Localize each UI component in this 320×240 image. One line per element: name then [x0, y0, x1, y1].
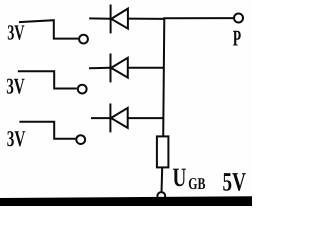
wire input 2 (L-shape from 3V source to switch): [18, 71, 77, 88]
terminal at supply rail: [157, 192, 165, 200]
svg-text:3V: 3V: [7, 21, 25, 45]
wire D3 cathode lead: [91, 117, 110, 119]
svg-text:P: P: [233, 26, 242, 51]
switch terminal (input 2): [78, 85, 87, 94]
diode D1: [111, 5, 128, 34]
supply rail bar U_GB: [0, 196, 252, 206]
wire D3 anode lead: [128, 117, 164, 119]
switch terminal (input 1): [79, 35, 88, 44]
svg-text:3V: 3V: [7, 126, 26, 151]
switch terminal (input 3): [76, 135, 85, 144]
wire input 1 (L-shape from 3V source to switch): [19, 20, 78, 38]
label U_GB 5V: [173, 162, 246, 197]
diode D2: [111, 54, 128, 83]
wire resistor to supply terminal: [161, 167, 164, 193]
wire D2 cathode lead: [89, 67, 111, 69]
diode D3: [110, 104, 127, 133]
wire D1 anode lead: [128, 18, 164, 20]
svg-text:5V: 5V: [223, 166, 246, 196]
wire D2 anode lead: [128, 67, 164, 69]
wire bus to output terminal P: [163, 17, 234, 19]
svg-text:3V: 3V: [6, 73, 25, 98]
wire input 3 (L-shape from 3V source to switch): [19, 122, 75, 139]
terminal P: [234, 14, 243, 23]
wire D1 cathode lead: [89, 17, 110, 19]
svg-text:U: U: [173, 162, 187, 192]
wire output bus (vertical, node P): [163, 18, 164, 137]
resistor R: [157, 136, 169, 167]
svg-text:GB: GB: [188, 174, 205, 193]
